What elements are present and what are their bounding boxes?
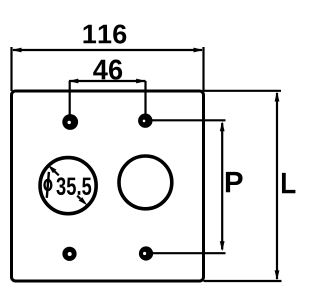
label 46 [93,60,122,80]
mounting hole top-right [138,114,152,128]
label 116 [84,24,127,43]
round hole right [119,156,172,209]
mounting hole bottom-right [139,246,153,260]
leader arrow lower-right inside circle [77,196,87,206]
mounting hole bottom-left [62,247,76,261]
label L [282,173,295,193]
dimension line 46 [68,79,146,84]
extension line P top [152,119,226,121]
round hole left (phi 35.5) [40,158,96,214]
extension dropper right of 46 [144,81,146,121]
extension line right of 116 [202,47,204,91]
mounting hole top-left [62,114,78,130]
extension line L bottom [204,280,282,282]
plate outline [12,91,204,281]
dimension line L [275,92,280,281]
label 35.5 [56,177,91,195]
dimension line 116 [12,48,204,53]
extension line left of 116 [10,47,12,91]
extension line L top [204,90,282,92]
label P [226,172,243,192]
extension line P bottom [152,252,226,254]
diameter symbol phi [45,172,52,198]
extension dropper left of 46 [69,81,71,121]
dimension line P [220,121,225,251]
leader arrow upper-left inside circle [48,165,59,176]
